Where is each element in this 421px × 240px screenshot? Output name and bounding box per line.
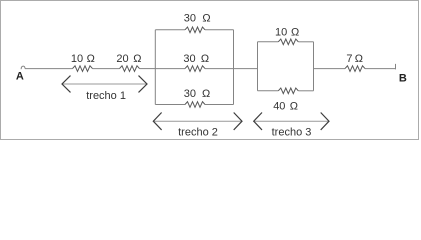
svg-text:Ω: Ω	[202, 12, 210, 24]
svg-text:10: 10	[71, 53, 83, 65]
svg-text:30: 30	[183, 53, 195, 65]
svg-text:A: A	[16, 70, 24, 82]
svg-text:trecho 3: trecho 3	[272, 126, 312, 138]
svg-text:40: 40	[273, 101, 285, 113]
svg-text:B: B	[399, 72, 407, 84]
svg-text:Ω: Ω	[133, 53, 141, 65]
svg-text:10: 10	[275, 26, 287, 38]
svg-text:trecho 2: trecho 2	[178, 126, 218, 138]
svg-text:Ω: Ω	[87, 53, 95, 65]
svg-text:Ω: Ω	[290, 101, 298, 113]
svg-text:trecho 1: trecho 1	[86, 90, 126, 102]
svg-text:20: 20	[116, 53, 128, 65]
svg-text:Ω: Ω	[201, 53, 209, 65]
svg-text:30: 30	[184, 88, 196, 100]
svg-text:Ω: Ω	[355, 53, 363, 65]
svg-text:Ω: Ω	[202, 88, 210, 100]
svg-text:30: 30	[184, 12, 196, 24]
svg-text:7: 7	[346, 53, 352, 65]
svg-text:Ω: Ω	[291, 26, 299, 38]
